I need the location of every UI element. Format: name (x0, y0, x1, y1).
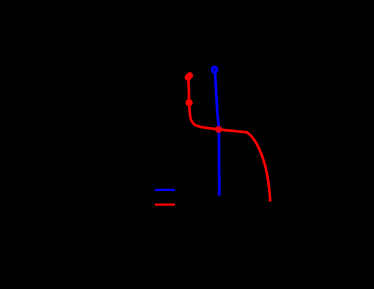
legend red line (155, 204, 175, 206)
red marker middle (filled) (186, 99, 193, 106)
red marker top 2 (open circle) (186, 75, 190, 79)
blue marker (open circle) (212, 67, 217, 72)
blue curve (215, 73, 219, 196)
red marker at crossing (open circle) (216, 127, 221, 132)
red curve (188, 77, 270, 202)
red marker top 1 (open circle) (188, 74, 192, 78)
legend blue line (155, 189, 175, 191)
